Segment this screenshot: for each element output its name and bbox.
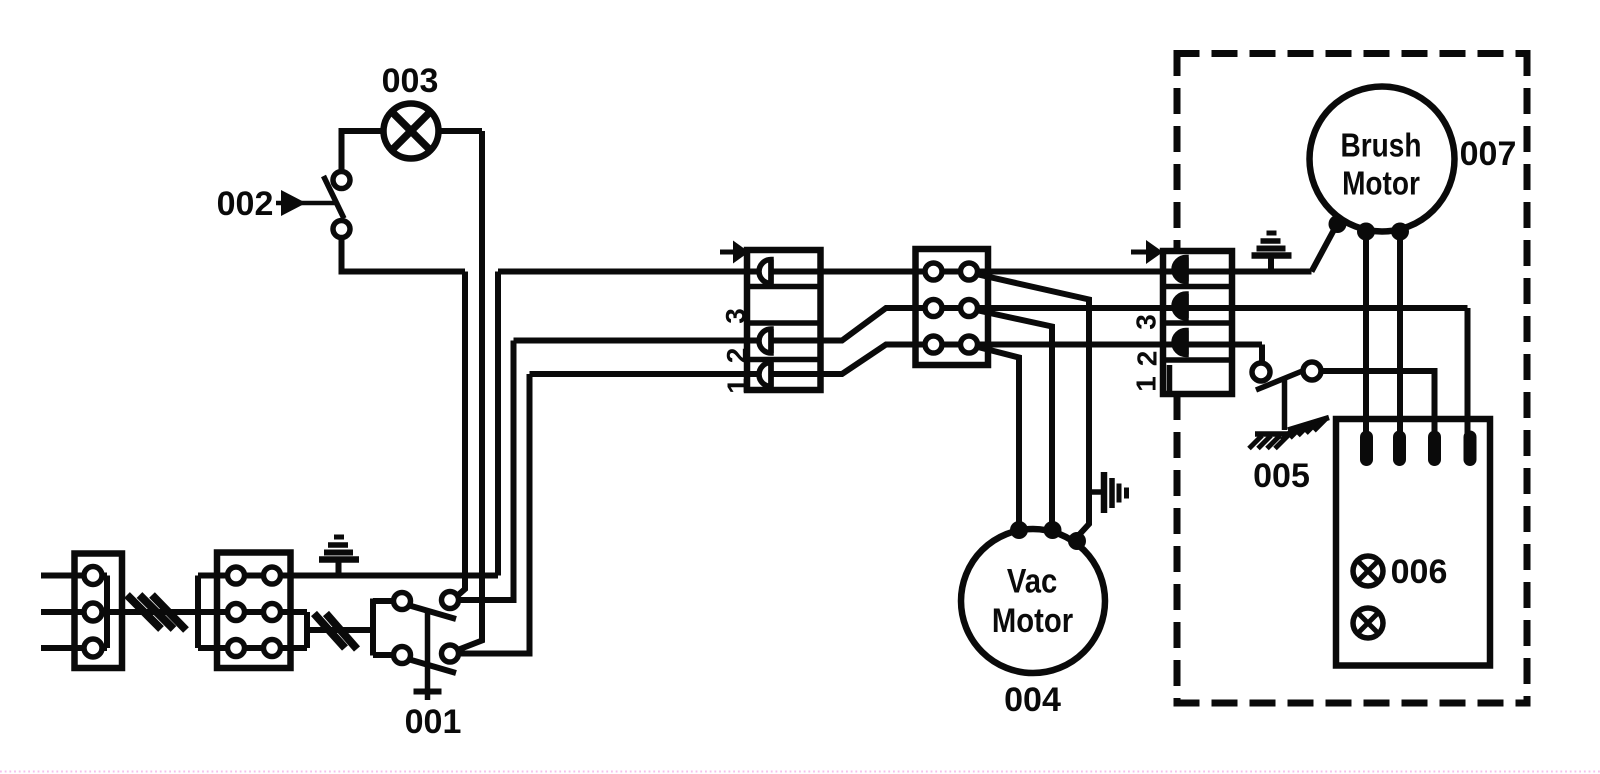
- switch 001 link and ground stem: [425, 610, 431, 701]
- svg-text:1: 1: [722, 378, 753, 394]
- connector J5 pin 1: [1174, 331, 1186, 355]
- connector J3 pin 2: [759, 329, 771, 353]
- svg-text:2: 2: [1132, 351, 1163, 367]
- svg-text:2: 2: [721, 348, 752, 364]
- wire vertical V3 (row A to J2 row1): [495, 272, 501, 576]
- brush motor 007 body: [1310, 87, 1455, 232]
- connector J5 pin 2: [1174, 294, 1186, 318]
- wire J4 to vac motor terminal 2: [976, 310, 1052, 530]
- wire input line 3 (left): [41, 645, 107, 651]
- ground bar of switch 001: [414, 689, 442, 695]
- svg-text:002: 002: [217, 185, 274, 223]
- connector J3 pin 3: [759, 260, 771, 284]
- connector J1 pin circles: [84, 567, 102, 658]
- wire brush motor terminal 2 down: [1363, 232, 1369, 438]
- box 006 body: [1336, 419, 1490, 666]
- wire row B (net 2): [514, 308, 1468, 341]
- wire J4 to vac motor terminal 3: [976, 274, 1089, 536]
- vac motor terminal dots: [1010, 521, 1086, 550]
- lamp 003: [384, 104, 439, 159]
- wire lamp 003 right: [439, 128, 483, 134]
- lamp 006a: [1353, 556, 1383, 586]
- ground G3 (sideways): [1089, 472, 1127, 513]
- wire brush motor terminal 3 down: [1397, 232, 1403, 438]
- box 006 pin 1: [1360, 437, 1373, 460]
- wire row3 of J2: [198, 645, 307, 651]
- wire row C corner to switch 005: [1259, 345, 1265, 364]
- wire row1 of J2 (to vertical V3 via ground tap): [198, 573, 498, 579]
- switch 002 blade: [324, 176, 345, 219]
- svg-text:001: 001: [405, 703, 462, 741]
- connector J2 (6-pin) body: [217, 553, 291, 669]
- connector J5 pin 3: [1174, 258, 1186, 282]
- cable marker (3 slashes): [127, 595, 186, 630]
- chassis ground (005): [1249, 418, 1329, 449]
- svg-text:007: 007: [1460, 135, 1517, 173]
- wire switch 002 bottom: [342, 238, 466, 272]
- connector J1 internal bus: [104, 576, 110, 649]
- brush motor terminal dots: [1329, 215, 1410, 241]
- switch 005 ground stem: [1282, 380, 1288, 430]
- ground G2 (stepped): [1252, 233, 1292, 272]
- connector J3 dividers: [747, 287, 821, 360]
- wire lamp 003 left to switch 002: [342, 131, 384, 172]
- wire row A diagonal to brush motor: [1312, 226, 1337, 272]
- connector J4 pin circles: [925, 263, 978, 353]
- switch 002 contacts: [333, 172, 350, 238]
- wire vertical V1 (002 to switch 001 top-right): [457, 272, 466, 597]
- wire row C (net 1): [530, 345, 1263, 375]
- dashed enclosure 007: [1174, 50, 1531, 707]
- switch 001 bracket: [373, 599, 394, 656]
- connector J5 body: [1163, 251, 1232, 394]
- svg-text:005: 005: [1253, 457, 1310, 495]
- wire vertical V4 (row B to 001 top-right): [459, 341, 514, 601]
- wire J4 to vac motor terminal 1: [976, 347, 1019, 531]
- svg-text:Motor: Motor: [992, 601, 1073, 640]
- switch 001 blade bottom: [410, 660, 457, 674]
- switch 005 contacts: [1252, 362, 1321, 381]
- svg-text:004: 004: [1004, 681, 1061, 719]
- box 006 pin 3: [1428, 437, 1441, 460]
- wire row B corner to box 006 pin 4: [1465, 308, 1471, 437]
- connector J2 pin circles: [228, 567, 281, 657]
- wire J2 to switch 001: [307, 627, 376, 633]
- svg-text:003: 003: [382, 62, 439, 100]
- wire vertical V2 (lamp 003 to 001 bottom-right): [458, 131, 483, 650]
- connector J5 bottom cell tick: [1167, 365, 1173, 391]
- svg-text:006: 006: [1391, 553, 1448, 591]
- svg-text:3: 3: [1131, 314, 1162, 330]
- wire vertical V5 (row C to 001 bottom-right): [459, 374, 530, 654]
- svg-text:Motor: Motor: [1342, 165, 1420, 202]
- wire input line 2 (left, through connectors to switch 001): [41, 609, 307, 615]
- ground G1 (stepped): [319, 537, 359, 576]
- connector J5 dividers: [1163, 287, 1232, 361]
- svg-text:1: 1: [1131, 376, 1162, 392]
- connector J4 (6-pin) body: [916, 249, 989, 365]
- connector J5 keying arrow: [1131, 240, 1163, 264]
- svg-text:Brush: Brush: [1340, 127, 1421, 164]
- connector J3 keying arrow: [720, 241, 749, 264]
- bottom border dotted line: [0, 771, 1600, 773]
- lamp 006b: [1353, 608, 1383, 638]
- switch 002 actuator arrow: [276, 190, 335, 216]
- connector J3 pin 1: [759, 363, 771, 387]
- svg-text:3: 3: [720, 308, 751, 324]
- wire bracket left of connector J2: [195, 576, 201, 649]
- svg-text:Vac: Vac: [1007, 561, 1057, 600]
- cable marker (2 slashes): [314, 614, 357, 650]
- box 006 pin 2: [1393, 437, 1406, 460]
- wire row A (net 3): [498, 269, 1312, 275]
- connector J1 (3-pin) body: [75, 554, 123, 669]
- box 006 pin 4: [1464, 437, 1477, 460]
- connector J3 body: [747, 250, 821, 390]
- switch 001 blade top: [410, 606, 457, 620]
- wire bracket right of connector J2: [281, 612, 308, 648]
- wire input line 1 (left): [41, 573, 107, 579]
- switch 001 contacts: [394, 592, 459, 664]
- vac motor 004 body: [961, 529, 1105, 673]
- switch 005 blade: [1256, 371, 1304, 391]
- wire switch 005 to box 006 pin 3: [1321, 371, 1435, 437]
